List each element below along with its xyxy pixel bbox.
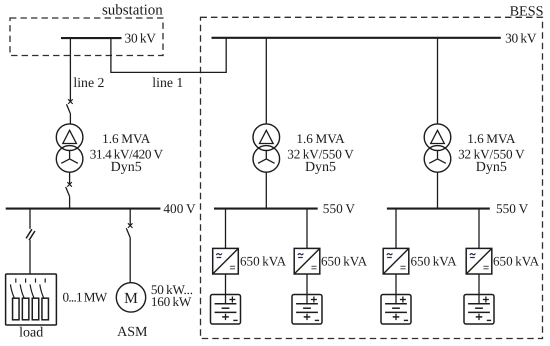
battery 3 (accumulator box) (381, 295, 411, 325)
wire fuse-switch to load box (29, 240, 31, 273)
battery 2 (accumulator box) (292, 295, 322, 325)
converter 2 650 kVA (AC/DC box) (294, 248, 320, 274)
circuit breaker above 400 V bus (66, 182, 72, 196)
svg-text:Dyn5: Dyn5 (476, 160, 507, 175)
busbar 550 V (right BESS string) (387, 208, 490, 210)
busbar 30 kV (BESS) (212, 37, 501, 39)
circuit breaker on ASM feeder (126, 223, 132, 237)
wire transformer T2 to 550 V bus (265, 172, 267, 208)
svg-text:650 kVA: 650 kVA (240, 253, 287, 268)
svg-text:1.6 MVA: 1.6 MVA (102, 131, 151, 146)
svg-text:M: M (124, 290, 138, 307)
motor ASM circle with M (116, 283, 145, 312)
svg-text:line 2: line 2 (73, 75, 104, 90)
wire breaker to motor (129, 238, 131, 283)
svg-text:550 V: 550 V (323, 201, 356, 216)
wire 400 V bus to ASM breaker (129, 209, 131, 226)
wire converter 4 to battery 4 (478, 274, 480, 295)
svg-text:0...1 MW: 0...1 MW (63, 289, 108, 304)
transformer T2 1.6 MVA 32 kV/550 V Dyn5 (253, 124, 280, 172)
wire line 2 to transformer T1 (69, 114, 71, 125)
wire transformer T3 to 550 V bus (437, 172, 439, 208)
wire 550 V bus to converter 2 (306, 209, 308, 249)
wire line 2 (30 kV feeder to plant transformer) (69, 38, 71, 101)
svg-text:650 kVA: 650 kVA (411, 253, 458, 268)
svg-text:650 kVA: 650 kVA (493, 253, 540, 268)
wire converter 1 to battery 1 (225, 274, 227, 295)
busbar 400 V (6, 208, 161, 210)
svg-text:32 kV/550 V: 32 kV/550 V (458, 146, 525, 161)
wire 400 V bus to fuse-switch (29, 209, 31, 229)
svg-text:1.6 MVA: 1.6 MVA (467, 131, 516, 146)
svg-text:160 kW: 160 kW (151, 294, 192, 309)
busbar 30 kV (substation) (61, 37, 122, 39)
battery 1 (accumulator box) (211, 295, 241, 325)
substation dashed boundary box (10, 18, 163, 56)
wire line 1 (30 kV tie line substation to BESS) (111, 38, 226, 73)
wire 550 V bus to converter 3 (395, 209, 397, 249)
busbar 550 V (left BESS string) (214, 208, 318, 210)
converter 3 650 kVA (AC/DC box) (383, 248, 409, 274)
battery 4 (accumulator box) (464, 295, 494, 325)
wire 30 kV bus to BESS transformer T3 (437, 38, 439, 124)
wire 550 V bus to converter 4 (478, 209, 480, 249)
svg-text:BESS: BESS (510, 4, 544, 20)
svg-text:1.6 MVA: 1.6 MVA (296, 131, 345, 146)
svg-text:32 kV/550 V: 32 kV/550 V (287, 146, 354, 161)
load step 2: switch and resistor (20, 278, 29, 319)
label transformer T2 ratings (287, 131, 354, 175)
load box (switched resistor bank) (6, 274, 57, 325)
load step 3: switch and resistor (30, 278, 39, 319)
svg-text:Dyn5: Dyn5 (111, 160, 142, 175)
svg-text:substation: substation (102, 3, 163, 19)
wire breaker to 400 V bus (69, 196, 71, 208)
svg-text:550 V: 550 V (496, 201, 529, 216)
fuse-switch symbol (double slash) on load feeder (26, 229, 35, 240)
wire transformer T1 to breaker (69, 172, 71, 184)
svg-text:31.4 kV/420 V: 31.4 kV/420 V (90, 146, 164, 161)
converter 1 650 kVA (AC/DC box) (213, 248, 239, 274)
svg-text:line 1: line 1 (152, 75, 183, 90)
transformer T1 1.6 MVA 31.4 kV/420 V Dyn5 (Dd circles) (56, 124, 83, 172)
svg-text:650 kVA: 650 kVA (321, 253, 368, 268)
svg-text:400 V: 400 V (163, 201, 196, 216)
transformer T3 1.6 MVA 32 kV/550 V Dyn5 (424, 124, 451, 172)
svg-text:30 kV: 30 kV (505, 30, 537, 45)
svg-text:Dyn5: Dyn5 (305, 160, 336, 175)
label transformer T1 ratings (90, 131, 164, 175)
svg-text:ASM: ASM (117, 325, 148, 340)
label transformer T3 ratings (458, 131, 525, 175)
wire 30 kV bus to BESS transformer T2 (265, 38, 267, 124)
wire 550 V bus to converter 1 (225, 209, 227, 249)
wire converter 2 to battery 2 (306, 274, 308, 295)
svg-text:30 kV: 30 kV (125, 31, 157, 46)
converter 4 650 kVA (AC/DC box) (466, 248, 492, 274)
svg-text:load: load (19, 326, 43, 341)
load step 4: switch and resistor (40, 278, 49, 319)
wire converter 3 to battery 3 (395, 274, 397, 295)
load step 1: switch and resistor (10, 278, 19, 319)
BESS dashed boundary box (201, 17, 543, 338)
circuit breaker on line 2 (67, 99, 73, 113)
